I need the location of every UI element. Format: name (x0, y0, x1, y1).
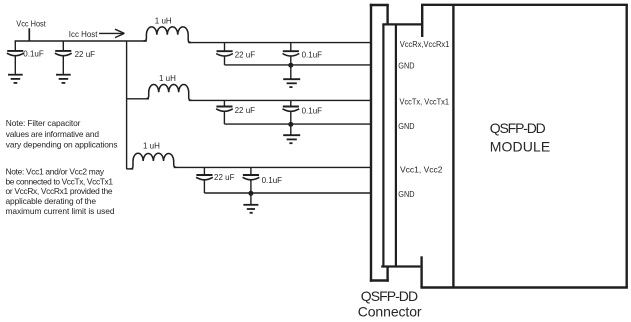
svg-text:22 uF: 22 uF (75, 50, 96, 59)
ground (243, 193, 258, 213)
svg-text:values are informative and: values are informative and (6, 129, 100, 139)
inductor L3 1uH (130, 142, 176, 169)
note Vcc1 Vcc2 (6, 166, 115, 216)
svg-text:Vcc Host: Vcc Host (16, 18, 46, 28)
capacitor 22uF host (55, 41, 95, 74)
inductor L1 1uH (144, 16, 191, 42)
svg-text:Note: Filter capacitor: Note: Filter capacitor (6, 118, 81, 128)
ground (56, 75, 71, 83)
wire branch1 (188, 42, 371, 44)
wire Vcc Host stub (28, 28, 30, 41)
svg-text:22 uF: 22 uF (235, 106, 256, 115)
capacitor C4 0.1uF (283, 100, 323, 124)
node Icc Host (69, 29, 98, 39)
module QSFP-DD outline (420, 5, 628, 288)
node Vcc Host (16, 18, 46, 28)
svg-text:1 uH: 1 uH (155, 16, 172, 25)
wire top bus (15, 40, 147, 42)
svg-text:GND: GND (398, 190, 414, 199)
svg-text:maximum current limit is used: maximum current limit is used (6, 206, 115, 216)
svg-text:QSFP-DD: QSFP-DD (361, 288, 418, 304)
svg-text:0.1uF: 0.1uF (23, 50, 44, 59)
inductor L2 1uH (146, 74, 192, 100)
node junction branch3 (248, 191, 253, 196)
svg-text:0.1uF: 0.1uF (302, 51, 323, 60)
svg-text:or VccRx, VccRx1 provided the: or VccRx, VccRx1 provided the (6, 186, 113, 196)
svg-text:applicable derating of the: applicable derating of the (6, 196, 97, 206)
module nose bottom (420, 256, 422, 287)
capacitor 0.1uF host (7, 41, 44, 74)
svg-text:GND: GND (398, 122, 414, 131)
capacitor C2 0.1uF (283, 43, 323, 65)
ground (283, 65, 300, 87)
label QSFP-DD MODULE (490, 120, 550, 154)
wire feed bus vertical (126, 41, 128, 169)
connector slot (381, 24, 422, 266)
capacitor C3 22uF (216, 100, 255, 124)
connector housing (370, 4, 389, 282)
ground (8, 75, 23, 83)
wire branch3 (174, 166, 371, 168)
capacitor C5 22uF (196, 167, 234, 193)
arrow Icc Host (99, 29, 124, 37)
svg-text:MODULE: MODULE (490, 139, 550, 155)
svg-text:VccTx, VccTx1: VccTx, VccTx1 (400, 97, 450, 106)
node junction branch2 (288, 122, 293, 127)
svg-text:22 uF: 22 uF (235, 50, 256, 59)
svg-text:be connected to VccTx, VccTx1: be connected to VccTx, VccTx1 (6, 176, 114, 186)
svg-text:Connector: Connector (358, 303, 422, 319)
svg-text:1 uH: 1 uH (143, 142, 160, 151)
node junction branch1 (288, 63, 293, 68)
svg-text:Note: Vcc1 and/or Vcc2 may: Note: Vcc1 and/or Vcc2 may (6, 166, 105, 176)
svg-text:0.1uF: 0.1uF (302, 106, 323, 115)
svg-text:22 uF: 22 uF (214, 173, 235, 182)
wire branch3 gnd rail (204, 192, 371, 194)
svg-text:1 uH: 1 uH (159, 74, 176, 83)
svg-text:Vcc1, Vcc2: Vcc1, Vcc2 (400, 166, 443, 175)
svg-text:QSFP-DD: QSFP-DD (490, 120, 546, 136)
note filter capacitors (6, 118, 118, 150)
svg-text:0.1uF: 0.1uF (262, 176, 283, 185)
wire branch2 gnd rail (224, 123, 371, 125)
wire branch3 from bus (127, 168, 134, 170)
capacitor C1 22uF (216, 43, 255, 65)
wire branch2 from bus (127, 98, 149, 100)
capacitor C6 0.1uF (243, 167, 283, 193)
svg-text:Icc Host: Icc Host (69, 29, 98, 39)
ground (283, 124, 300, 143)
module nose top (421, 5, 423, 37)
wire branch1 gnd rail (225, 64, 371, 66)
label QSFP-DD Connector (358, 288, 422, 319)
svg-text:VccRx,VccRx1: VccRx,VccRx1 (400, 40, 450, 49)
svg-text:GND: GND (398, 62, 414, 71)
svg-text:vary depending on applications: vary depending on applications (6, 140, 118, 150)
wire branch2 (189, 99, 371, 101)
